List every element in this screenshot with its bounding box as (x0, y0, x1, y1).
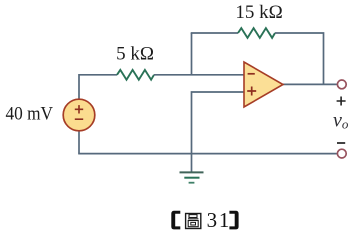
caption opening bracket (171, 211, 180, 230)
wire feedback top right and right vertical down to output (275, 33, 324, 84)
op-amp minus input sign (248, 73, 255, 75)
svg-text:15 kΩ: 15 kΩ (235, 2, 282, 23)
op-amp U1 triangle (244, 62, 283, 107)
voltage source VS circle (63, 99, 95, 131)
output plus label (337, 97, 346, 106)
svg-text:31: 31 (207, 208, 232, 232)
ground stub wire (191, 154, 193, 172)
wire feedback top left segment (191, 32, 238, 34)
caption CJK character tu (figure) (186, 214, 201, 229)
wire from source bottom down (78, 131, 80, 154)
output terminal top (337, 80, 346, 89)
wire op-amp output to terminal (283, 83, 337, 85)
wire from source top to resistor R1 (79, 75, 117, 100)
svg-text:5 kΩ: 5 kΩ (116, 44, 154, 65)
ground symbol bars (180, 171, 204, 173)
voltage source minus sign (75, 118, 83, 120)
wire noninverting input and vertical down to bottom rail (192, 92, 245, 154)
resistor R2 15 kOhm zigzag (238, 28, 275, 38)
svg-text:40 mV: 40 mV (6, 104, 54, 125)
resistor R1 5 kOhm zigzag (117, 70, 154, 80)
wire from R1 to op-amp inverting input (154, 74, 244, 76)
op-amp plus input sign (247, 87, 256, 96)
caption closing bracket (229, 211, 238, 230)
wire feedback left vertical from node to top (191, 33, 193, 75)
wire bottom rail (78, 153, 337, 155)
voltage source plus sign (75, 105, 83, 113)
output minus label (337, 142, 345, 144)
output terminal bottom (337, 149, 346, 158)
